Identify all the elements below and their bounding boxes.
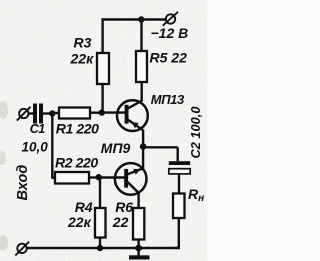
svg-text:R4: R4 xyxy=(75,199,93,215)
svg-text:МП9: МП9 xyxy=(101,140,131,156)
wire: R3 top lead xyxy=(101,18,103,53)
wire: node down to collector/emitter of VT2 xyxy=(142,147,144,169)
ground symbol xyxy=(129,248,150,260)
wire: emitter VT1 down to output node xyxy=(142,130,144,148)
wire: R4 bottom lead xyxy=(99,238,101,249)
terminal: input top xyxy=(17,107,31,121)
svg-text:10,0: 10,0 xyxy=(22,140,49,155)
wire: base lead VT2 xyxy=(98,176,125,178)
wire: R2 to base node of VT2 xyxy=(89,176,100,178)
transistor VT2 МП9 (NPN) xyxy=(115,163,147,195)
wire: R1 to base node of VT1 xyxy=(90,111,102,113)
node: emitters / C2 junction xyxy=(140,143,147,150)
wire: C1 to input node xyxy=(43,112,53,114)
wire: base node down to R4 xyxy=(99,177,101,208)
capacitor C1 xyxy=(33,104,43,124)
wire: R5 bottom lead (collector of VT1) xyxy=(140,82,142,102)
node: R2 / R4 / base VT2 junction xyxy=(96,174,102,180)
resistor R4 xyxy=(95,208,106,238)
wire: Rн bottom lead to ground rail xyxy=(176,218,179,248)
svg-text:C1: C1 xyxy=(30,122,45,136)
node: R4 / ground rail junction xyxy=(97,245,103,251)
wire: bottom ground rail xyxy=(26,247,179,249)
scan smudge left bottom xyxy=(0,235,8,251)
wire: R5 top lead xyxy=(140,20,142,52)
wire: emitter VT2 down to R6 xyxy=(137,193,139,208)
svg-text:R2 220: R2 220 xyxy=(55,155,98,171)
wire: R3 bottom lead xyxy=(101,84,103,113)
wire: input node down to R2 xyxy=(52,114,55,178)
wire: C2 to Rн xyxy=(178,174,180,194)
svg-text:22к: 22к xyxy=(70,51,95,67)
svg-text:R5 22: R5 22 xyxy=(150,50,188,66)
scan smudge left mid xyxy=(0,151,6,165)
resistor R3 xyxy=(97,53,109,84)
node: supply rail / R5 junction xyxy=(138,16,144,22)
wire: base lead VT1 xyxy=(102,111,125,113)
wire: node to R1 xyxy=(52,112,59,114)
resistor Rн (load) xyxy=(173,194,185,219)
wire: R6 bottom lead xyxy=(137,240,139,249)
resistor R6 xyxy=(133,208,144,240)
capacitor C2 (electrolytic) xyxy=(169,161,190,174)
svg-text:C2 100,0: C2 100,0 xyxy=(188,107,203,159)
svg-text:R1 220: R1 220 xyxy=(56,121,99,137)
wire: top supply rail xyxy=(102,18,167,20)
node: R3 / R1 / base VT1 junction xyxy=(99,109,105,115)
scan smudge left top xyxy=(0,101,8,119)
resistor R5 xyxy=(136,51,147,82)
node: R6 / ground rail junction xyxy=(135,245,142,252)
wire: terminal to C1 xyxy=(28,112,34,114)
svg-text:Вход: Вход xyxy=(15,165,31,201)
svg-text:R3: R3 xyxy=(74,35,92,51)
resistor R1 xyxy=(59,108,90,119)
svg-text:МП13: МП13 xyxy=(151,92,185,107)
resistor R2 xyxy=(55,172,89,184)
terminal: -12V supply xyxy=(163,12,178,26)
transistor VT1 МП13 (PNP) xyxy=(117,100,148,131)
svg-text:−12 В: −12 В xyxy=(151,25,189,41)
svg-text:22к: 22к xyxy=(67,214,92,230)
wire: down to C2 top plate xyxy=(176,147,178,161)
svg-text:R6: R6 xyxy=(115,199,133,215)
wire: output node to C2 xyxy=(143,146,178,148)
svg-text:22: 22 xyxy=(112,214,129,230)
node: C1 / R1 / R2 junction xyxy=(49,110,55,116)
terminal: input bottom (ground) xyxy=(15,242,29,256)
